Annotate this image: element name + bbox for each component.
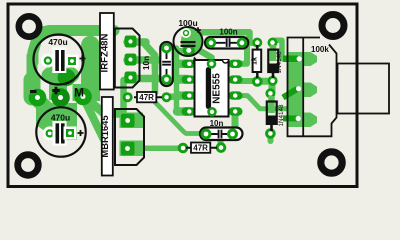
wire band A from 100u top — [190, 32, 250, 41]
wire dark stripe pot pad1 — [283, 56, 298, 63]
potentiometer shaft — [338, 64, 390, 114]
pad MBR pin2 copper zone — [120, 141, 144, 157]
capacitor C4 10n vertical pill — [142, 42, 173, 86]
pad cap1 plus blob — [58, 69, 76, 86]
pad pot hole2 — [296, 86, 301, 91]
wire pot pour vertical — [287, 54, 303, 127]
wire diode1-top to pot pad1 — [273, 40, 296, 58]
wire IRFZ row1 band — [127, 38, 146, 46]
svg-text:MBR1645: MBR1645 — [99, 115, 110, 157]
node 100u interior copper — [181, 27, 202, 55]
svg-text:100k: 100k — [311, 45, 329, 54]
potentiometer VR1 100k body — [288, 38, 390, 137]
wire elbow to IC top center — [200, 51, 212, 63]
wire R1 riser — [238, 44, 247, 64]
diode D1 1N4148 — [268, 45, 283, 78]
svg-text:1N4148: 1N4148 — [278, 104, 285, 127]
pad pill2 left — [201, 129, 212, 140]
diode D2 1N4148 — [267, 96, 285, 131]
wire P3 minus pour into cap2 — [31, 93, 46, 108]
wire band B 100n-right to 1k-top — [242, 40, 257, 46]
pads NE555 left column — [182, 60, 196, 116]
capacitor C2 470u bottom — [36, 107, 85, 156]
node cap2 interior pour — [36, 103, 77, 140]
node M pour bottom widening — [73, 84, 101, 101]
op-amp U1 NE555 body — [195, 59, 229, 117]
wire IC bottom center band — [180, 108, 214, 115]
svg-text:M: M — [74, 86, 84, 100]
pad diode1 bottom — [268, 76, 278, 86]
svg-text:1N4148: 1N4148 — [276, 51, 283, 74]
wire M net to MBR pad1 under tab — [86, 98, 122, 114]
transistor Q1 body — [115, 29, 140, 88]
svg-text:100n: 100n — [219, 27, 237, 36]
wire H1 bottom horizontal — [128, 146, 184, 152]
pad MBR pin1 copper zone — [120, 113, 144, 129]
node minus pour widening — [24, 80, 41, 97]
pad pill2 right — [227, 129, 238, 140]
pad 47R2 left — [178, 143, 189, 154]
svg-text:470u: 470u — [48, 37, 67, 47]
wire V2 under MBR column — [120, 80, 127, 118]
wire IRFZ row3 band to NE555 — [127, 75, 187, 83]
wire M net band2 to MBR pad2 under tab — [84, 99, 104, 139]
svg-text:100u: 100u — [178, 18, 197, 28]
pads D3 pins — [121, 114, 135, 128]
pad 100n right — [236, 38, 247, 49]
wire IRFZ row2 band — [127, 56, 158, 64]
board outline — [8, 4, 357, 187]
mounting hole BR — [321, 152, 342, 173]
wire dark stripe pot pad2 — [283, 89, 297, 98]
wire diagonal row1 down — [143, 42, 155, 68]
wire 1k-bottom diode1-bottom join — [258, 81, 272, 92]
wire 47R1 right pad to NE555 L3 — [167, 93, 180, 100]
svg-text:1k: 1k — [250, 57, 259, 65]
wire R4 down to pill2 right — [232, 113, 239, 134]
node P5 M shoulder to tab — [92, 44, 100, 92]
pad diode2 top — [265, 88, 275, 98]
pad 1k bottom — [252, 76, 263, 87]
wire W1+W2 top-left wide pour to minus pad — [33, 31, 114, 63]
wire vertical under 47R1 — [152, 60, 159, 93]
pad diode2 bottom — [265, 128, 276, 139]
mounting hole TR — [322, 15, 344, 37]
wire P4 plus column through caps — [49, 64, 67, 100]
pot pad2 hexagon — [287, 83, 317, 98]
wire diagonal D1 to bottom trace — [153, 100, 202, 134]
wire V1 left of NE555 — [174, 48, 180, 111]
mounting hole BL — [18, 155, 39, 176]
diode D3 body — [115, 109, 144, 165]
mounting hole TL — [19, 16, 39, 36]
pot pad3 hexagon — [287, 113, 317, 128]
svg-text:10n: 10n — [142, 56, 151, 70]
pad IC top center — [207, 59, 217, 69]
wire P5 M pour right of cap1 — [81, 45, 100, 88]
diode D3 MBR1645 tab — [102, 97, 113, 176]
wire band 100u-bottom to pill1-top — [165, 48, 189, 54]
svg-text:IRFZ48N: IRFZ48N — [100, 33, 111, 72]
pad pot hole1 — [297, 56, 302, 61]
pads Q1 pins — [125, 36, 137, 84]
wire 47R2 right pad riser — [218, 140, 224, 148]
pad 47R1 left — [123, 92, 133, 102]
pad diode1 top — [268, 38, 278, 48]
wire R3 tail and diagonal — [236, 96, 290, 109]
resistor R2 47R — [186, 143, 217, 153]
pad pot hole3 — [296, 116, 301, 121]
svg-text:10n: 10n — [210, 119, 224, 128]
pad 47R2 right — [216, 142, 227, 153]
pad plus terminal — [51, 88, 70, 107]
resistor R1 47R — [134, 92, 162, 102]
wire R2 band to 1k bottom — [236, 78, 256, 84]
capacitor C6 10n horizontal pill — [200, 119, 243, 140]
transistor Q1 IRFZ48N tab — [100, 13, 114, 90]
svg-text:47R: 47R — [139, 93, 154, 102]
wire NE555 left tails — [177, 60, 189, 68]
pad 100u bottom — [183, 44, 195, 56]
pad M terminal — [74, 88, 92, 106]
svg-text:47R: 47R — [193, 144, 208, 153]
wire diode2 bottom stub — [268, 134, 274, 142]
svg-text:NE555: NE555 — [212, 73, 223, 104]
pads NE555 right column — [229, 60, 243, 116]
pad 100n left — [207, 39, 218, 50]
capacitor C3 100u — [174, 18, 204, 66]
pot pad1 hexagon — [288, 52, 317, 66]
pad IC bottom center — [207, 107, 217, 117]
node cap1 interior blob — [42, 65, 80, 86]
capacitor C5 100n pill — [205, 27, 248, 48]
capacitor C1 470u top — [34, 35, 86, 85]
plus sign — [52, 87, 59, 94]
pad minus terminal — [29, 89, 47, 107]
pad 1k top — [252, 38, 262, 48]
pad 47R1 right — [162, 92, 172, 102]
node minus pour mid — [27, 56, 38, 82]
wire dark stripe pot pad3 — [283, 115, 298, 121]
minus sign — [30, 90, 37, 93]
resistor R3 1k — [250, 45, 262, 78]
